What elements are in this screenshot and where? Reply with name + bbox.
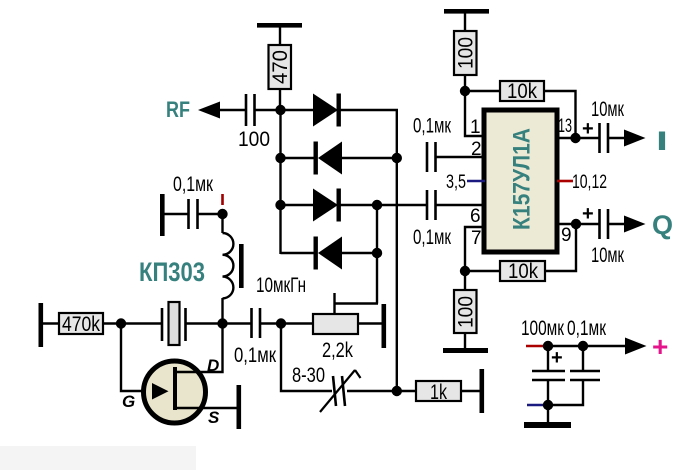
svg-text:10,12: 10,12 bbox=[572, 172, 607, 193]
resistor 10k top bbox=[500, 80, 544, 103]
node dot C0.1uk bbox=[578, 341, 588, 351]
svg-text:2: 2 bbox=[471, 139, 482, 160]
variable capacitor 8-30 bbox=[320, 370, 361, 412]
wire right ring bus bbox=[396, 110, 398, 391]
label S bbox=[208, 408, 220, 427]
node ring feed dot bbox=[276, 318, 286, 328]
label G bbox=[122, 392, 135, 411]
svg-text:100: 100 bbox=[238, 128, 270, 151]
node dot pin1 feed bbox=[460, 86, 470, 96]
op-amp IC К157УЛ1А bbox=[484, 110, 557, 252]
svg-text:+: + bbox=[551, 347, 563, 369]
svg-text:Q: Q bbox=[652, 210, 673, 240]
svg-text:10мк: 10мк bbox=[591, 98, 625, 121]
ground bar psu bbox=[524, 422, 571, 428]
node dot C100uk bbox=[543, 341, 553, 351]
capacitor 10uk Q bbox=[591, 209, 625, 267]
label 0,1мк psu bbox=[567, 317, 607, 340]
svg-text:470k: 470k bbox=[62, 313, 100, 336]
capacitor C 0.1uk to pin6 bbox=[413, 190, 484, 249]
svg-text:100: 100 bbox=[455, 37, 478, 69]
wire R2.2k right bbox=[358, 322, 383, 324]
terminal bar source bbox=[237, 385, 242, 429]
capacitor C 0.1uk to pin2 bbox=[413, 115, 484, 173]
diode VD4 bbox=[281, 237, 378, 270]
svg-text:1: 1 bbox=[470, 117, 481, 138]
node dot psu gnd bbox=[543, 400, 553, 410]
capacitor 0.1uk coupling bbox=[234, 308, 277, 367]
wire to crystal bbox=[121, 322, 163, 324]
node A junction dot bbox=[275, 105, 285, 115]
svg-text:I: I bbox=[656, 126, 668, 156]
node dot pin9 bbox=[571, 219, 581, 229]
node dot left bus row3 bbox=[275, 200, 285, 210]
wire cap to arrow Q bbox=[608, 223, 626, 225]
label 8-30 bbox=[292, 364, 325, 387]
resistor 1k bbox=[397, 381, 481, 404]
node drain dot bbox=[217, 318, 227, 328]
terminal bar right of 2.2k bbox=[382, 304, 387, 348]
svg-text:6: 6 bbox=[470, 206, 481, 227]
svg-text:К157УЛ1А: К157УЛ1А bbox=[509, 128, 536, 230]
diode VD3 bbox=[280, 189, 427, 222]
svg-text:2,2k: 2,2k bbox=[322, 339, 353, 362]
svg-text:0,1мк: 0,1мк bbox=[173, 173, 214, 196]
wire node to node bbox=[548, 345, 584, 347]
wire bar to 470k bbox=[41, 322, 60, 324]
pin 1 label bbox=[470, 117, 481, 138]
node dot right bus row2 bbox=[392, 153, 402, 163]
svg-text:9: 9 bbox=[561, 225, 572, 246]
svg-text:0,1мк: 0,1мк bbox=[413, 226, 452, 249]
crystal ZQ1 bbox=[162, 302, 186, 345]
inductor L 10uH bbox=[223, 214, 307, 323]
power rail bar (top right) bbox=[444, 9, 489, 14]
resistor 100 bottom bbox=[454, 271, 478, 349]
svg-text:10мкГн: 10мкГн bbox=[256, 274, 306, 297]
wire rail to R100 bbox=[464, 13, 466, 32]
svg-text:+: + bbox=[652, 331, 668, 362]
pin 13 label bbox=[558, 116, 572, 137]
wire RF arrow to C100 bbox=[218, 109, 246, 111]
node gate dot bbox=[116, 318, 126, 328]
wire 470k to gate node bbox=[103, 322, 122, 324]
svg-text:100мк: 100мк bbox=[521, 317, 565, 340]
wire to arrow bbox=[583, 345, 627, 347]
resistor 100 top bbox=[454, 31, 478, 75]
wire R100 to node bbox=[464, 75, 466, 92]
terminal bar right of 1k bbox=[480, 369, 485, 413]
capacitor 10uk I bbox=[591, 98, 625, 153]
svg-text:1k: 1k bbox=[430, 381, 447, 404]
pin 9 wire bbox=[557, 223, 600, 225]
label I bbox=[656, 126, 668, 156]
label Q bbox=[652, 210, 673, 240]
wire cap to ring node bbox=[260, 322, 282, 324]
wire drain bbox=[175, 324, 223, 373]
svg-text:13: 13 bbox=[558, 116, 572, 137]
wire left ring bus bbox=[279, 110, 281, 254]
arrow Q bbox=[624, 216, 646, 233]
pin 3,5 stub bbox=[446, 172, 485, 193]
ground bar under 100 bbox=[443, 348, 488, 353]
pin 7 wire bbox=[465, 227, 484, 272]
node dot row3 tap bbox=[372, 200, 382, 210]
svg-text:0,1мк: 0,1мк bbox=[567, 317, 607, 340]
red test tick bbox=[221, 194, 224, 205]
capacitor 100 bbox=[238, 94, 270, 151]
label plus magenta bbox=[652, 331, 668, 362]
arrow I bbox=[624, 130, 646, 147]
terminal bar top cap bbox=[160, 194, 165, 236]
wire R470 to node bbox=[279, 89, 281, 110]
navy stub psu bbox=[527, 404, 548, 407]
svg-text:КП303: КП303 bbox=[139, 257, 205, 287]
pin 2 label bbox=[471, 139, 482, 160]
potentiometer 2.2k bbox=[313, 293, 378, 362]
wire crystal to drain node bbox=[186, 322, 223, 324]
capacitor 100uk bbox=[532, 346, 565, 406]
svg-text:+: + bbox=[582, 203, 594, 225]
wire C100 to node A bbox=[255, 109, 281, 111]
capacitor 0.1uk psu bbox=[548, 346, 600, 405]
svg-text:G: G bbox=[122, 392, 135, 411]
svg-text:10k: 10k bbox=[507, 80, 537, 103]
arrow plus out bbox=[625, 338, 647, 355]
node dot coil top bbox=[217, 209, 227, 219]
svg-text:0,1мк: 0,1мк bbox=[413, 115, 452, 138]
wire node to pin1 bbox=[465, 91, 484, 136]
pin 13 wire bbox=[557, 137, 600, 139]
wire to C 0.1uk bbox=[223, 322, 253, 324]
red feed stub bbox=[526, 345, 549, 348]
svg-text:+: + bbox=[582, 118, 594, 140]
transistor VT1 КП303 bbox=[144, 361, 206, 423]
svg-text:470: 470 bbox=[269, 50, 292, 84]
transistor label КП303 bbox=[139, 257, 205, 287]
svg-text:RF: RF bbox=[166, 97, 190, 122]
wire ring tap bus bbox=[376, 205, 378, 304]
svg-text:7: 7 bbox=[471, 228, 482, 249]
node dot left bus row2 bbox=[275, 153, 285, 163]
label D bbox=[207, 356, 219, 375]
wire to ground bbox=[547, 405, 549, 423]
svg-text:10k: 10k bbox=[508, 260, 538, 283]
wire 10k to pin13 bbox=[544, 91, 576, 138]
wire cap to arrow I bbox=[608, 137, 626, 139]
node dot pin7 bbox=[460, 266, 470, 276]
plus mark Q bbox=[582, 203, 594, 225]
pin 6 label bbox=[470, 206, 481, 227]
svg-text:10мк: 10мк bbox=[591, 244, 625, 267]
wire gate down bbox=[121, 324, 153, 392]
node dot pin13 bbox=[570, 133, 580, 143]
pin 7 label bbox=[471, 228, 482, 249]
label 100мк bbox=[521, 317, 565, 340]
svg-text:3,5: 3,5 bbox=[446, 172, 466, 193]
capacitor 0.1uk osc bbox=[164, 173, 223, 229]
resistor 470 bbox=[269, 45, 293, 89]
wire source bbox=[175, 407, 238, 409]
diode VD1 bbox=[280, 94, 398, 127]
node dot 1k bbox=[392, 386, 402, 396]
diode VD2 bbox=[280, 142, 397, 175]
wire node to R2.2k bbox=[281, 322, 314, 324]
wire rail to R470 bbox=[279, 27, 281, 46]
plus mark I bbox=[582, 118, 594, 140]
RF arrow bbox=[198, 102, 220, 119]
wire ring node down bbox=[281, 324, 332, 392]
svg-text:S: S bbox=[208, 408, 220, 427]
node RF label bbox=[166, 97, 190, 122]
resistor 10k bottom bbox=[500, 260, 545, 283]
wire node to 10k bbox=[465, 90, 501, 92]
wire 10k to pin9 bbox=[545, 224, 576, 271]
wire node to 10k bottom bbox=[465, 270, 501, 272]
svg-text:0,1мк: 0,1мк bbox=[234, 344, 277, 367]
svg-text:8-30: 8-30 bbox=[292, 364, 325, 387]
pin 9 label bbox=[561, 225, 572, 246]
power rail bar (top left) bbox=[257, 23, 302, 28]
terminal bar left bbox=[39, 303, 44, 347]
node dot row4 tap bbox=[372, 248, 382, 258]
svg-text:100: 100 bbox=[455, 296, 478, 328]
wire varcap to node bbox=[347, 390, 398, 392]
pin 10,12 stub bbox=[557, 172, 607, 193]
resistor 470k bbox=[59, 313, 103, 336]
plus mark electrolytic bbox=[551, 347, 563, 369]
